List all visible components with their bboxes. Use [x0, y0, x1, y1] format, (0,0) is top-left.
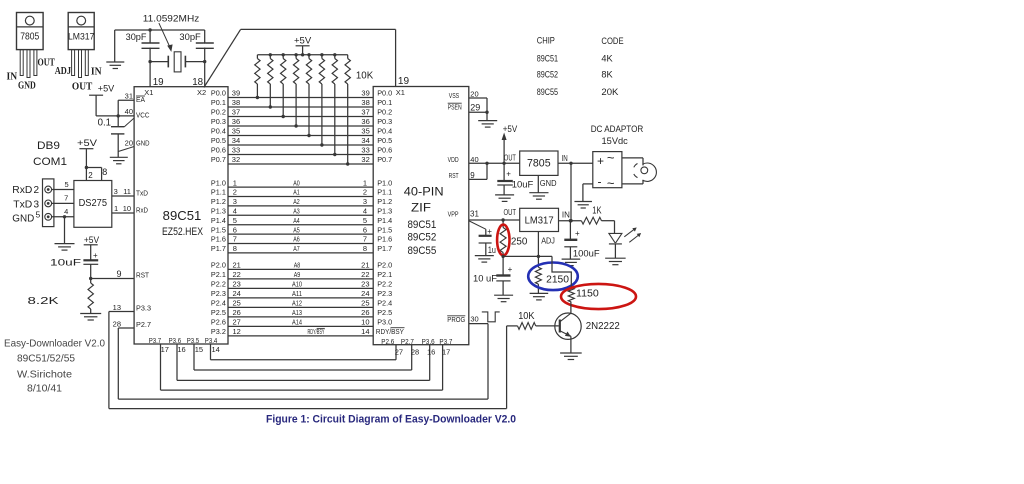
svg-text:P3.0: P3.0 — [377, 318, 392, 327]
wire LED drop — [614, 221, 616, 234]
label X1 inside ZIF — [396, 88, 405, 97]
wire RDY/BSY (P3.2 pin 12 to RDY/BSY pin 14) — [211, 327, 405, 336]
svg-text:P1.6: P1.6 — [211, 235, 226, 244]
svg-text:2150: 2150 — [546, 275, 569, 286]
wire EA pin 31 — [118, 100, 134, 116]
svg-text:10K: 10K — [356, 70, 374, 81]
svg-text:2: 2 — [34, 185, 40, 196]
label 89C51 (left chip) — [163, 208, 202, 223]
junction LM317 in — [569, 219, 572, 222]
svg-text:8: 8 — [363, 244, 367, 253]
svg-text:27: 27 — [233, 318, 241, 327]
wire LM317 ADJ — [537, 232, 539, 268]
svg-text:P3.7: P3.7 — [149, 336, 162, 345]
svg-text:34: 34 — [361, 136, 369, 145]
svg-text:P0.4: P0.4 — [211, 127, 226, 136]
svg-text:VSS: VSS — [449, 91, 460, 100]
svg-text:P2.0: P2.0 — [211, 261, 226, 270]
wire DB9 pin7 to DS275 — [52, 194, 74, 204]
svg-text:-: - — [598, 175, 602, 189]
svg-text:27: 27 — [395, 347, 403, 356]
wire P0.3 (pin 36 to pin 36) — [211, 117, 392, 126]
wire VPP pin 31 — [448, 209, 520, 220]
svg-text:PSEN: PSEN — [448, 102, 462, 111]
label pin 19 (ZIF X1) — [398, 76, 410, 87]
svg-text:10uF: 10uF — [50, 258, 81, 269]
svg-text:P0.7: P0.7 — [211, 155, 226, 164]
junction crystal right — [203, 60, 206, 63]
label 10uF (VDD) — [512, 180, 534, 191]
wire A3 (P1.3, pin 4) — [211, 207, 392, 216]
svg-text:CODE: CODE — [601, 36, 623, 47]
svg-text:RDY/BSY: RDY/BSY — [376, 327, 404, 336]
wire +5V pullup bus — [257, 54, 347, 56]
label OUT (7805 left) — [504, 154, 516, 163]
wire A0 (P1.0, pin 1) — [211, 178, 392, 187]
svg-text:89C51: 89C51 — [537, 53, 558, 64]
crystal Y1 11.0592MHz — [168, 52, 185, 72]
svg-text:37: 37 — [232, 108, 240, 117]
svg-text:11: 11 — [123, 187, 131, 196]
svg-text:P3.3: P3.3 — [136, 304, 151, 313]
resistor RN1-5 10K pull-up (P0.4) — [306, 55, 311, 137]
svg-text:38: 38 — [361, 98, 369, 107]
IC U3 40-PIN ZIF socket (body) — [373, 87, 469, 345]
svg-text:P0.3: P0.3 — [377, 117, 392, 126]
svg-text:P1.1: P1.1 — [377, 188, 392, 197]
svg-text:15Vdc: 15Vdc — [602, 136, 629, 147]
wire A6 (P1.6, pin 7) — [211, 235, 392, 244]
svg-text:35: 35 — [232, 127, 240, 136]
pin 15 P3.5 stub (left chip bottom) — [187, 336, 203, 370]
label 30pF right — [179, 32, 201, 43]
svg-text:8K: 8K — [601, 70, 613, 81]
svg-text:P2.4: P2.4 — [377, 299, 392, 308]
svg-text:A14: A14 — [292, 320, 302, 327]
svg-text:ADJ: ADJ — [541, 237, 555, 246]
label pin 2 (DS275) — [88, 171, 93, 180]
wire crystal left lead — [150, 61, 168, 63]
svg-text:P3.6: P3.6 — [422, 337, 435, 346]
wire P3.3 vertical — [108, 312, 110, 409]
svg-text:+5V: +5V — [77, 138, 98, 149]
svg-text:P2.0: P2.0 — [377, 261, 392, 270]
wire VDD pin 40 — [448, 155, 520, 164]
label IN (7805) — [7, 71, 18, 82]
svg-text:14: 14 — [212, 345, 220, 354]
label 250 — [511, 237, 528, 248]
svg-text:P1.3: P1.3 — [211, 207, 226, 216]
svg-text:IN: IN — [562, 154, 568, 163]
junction DB9 gnd — [63, 215, 66, 218]
wire 7805 GND stub — [537, 175, 539, 192]
ground (crystal caps) — [106, 62, 124, 69]
svg-text:7: 7 — [233, 235, 237, 244]
svg-text:2: 2 — [233, 188, 237, 197]
wire DS275 TxD to 89C51 — [112, 187, 149, 197]
svg-text:40: 40 — [125, 107, 133, 116]
svg-text:9: 9 — [470, 171, 475, 180]
label OUT (7805) — [38, 57, 56, 68]
svg-text:17: 17 — [161, 345, 169, 354]
svg-text:A13: A13 — [292, 310, 302, 317]
resistor RN1-4 10K pull-up (P0.3) — [293, 55, 298, 128]
resistor RN1-7 10K pull-up (P0.6) — [332, 55, 337, 156]
label IN (7805 box) — [562, 154, 568, 163]
svg-text:5: 5 — [65, 180, 69, 189]
wire P0.2 (pin 37 to pin 37) — [211, 108, 392, 117]
svg-text:17: 17 — [442, 347, 450, 356]
svg-text:22: 22 — [233, 270, 241, 279]
label 30pF left — [126, 32, 147, 43]
svg-text:P0.4: P0.4 — [377, 127, 392, 136]
regulator LM317 (box) — [520, 208, 559, 231]
svg-text:GND: GND — [540, 178, 557, 188]
svg-text:1: 1 — [363, 178, 367, 187]
svg-text:P2.3: P2.3 — [211, 289, 226, 298]
capacitor 10uF (VDD) — [497, 163, 513, 195]
wire A11 (P2.3 pin 24 to P2.3 pin 24) — [211, 289, 392, 298]
wire ADJ to 1150 jog — [552, 256, 571, 287]
svg-text:GND: GND — [12, 213, 34, 224]
svg-text:5: 5 — [233, 216, 237, 225]
wire gnd drop — [64, 217, 66, 244]
ground (DB9) — [55, 244, 75, 251]
svg-text:TxD: TxD — [13, 200, 32, 211]
svg-text:RxD: RxD — [136, 205, 148, 214]
svg-text:3: 3 — [233, 197, 237, 206]
wire P0.4 (pin 35 to pin 35) — [211, 127, 392, 136]
label 89C51 (ZIF) — [407, 219, 436, 231]
svg-text:4: 4 — [363, 207, 367, 216]
svg-text:DS275: DS275 — [79, 198, 108, 209]
resistor 10K (base) — [507, 323, 559, 330]
capacitor C2 30pF — [196, 43, 214, 48]
wire DB9 pin5 to DS275 — [52, 180, 74, 190]
svg-text:9: 9 — [116, 269, 121, 279]
label 40 VCC — [125, 107, 150, 119]
svg-text:IN: IN — [562, 211, 570, 220]
wire P3.7 to ZIF P3.7 — [161, 345, 443, 390]
junction RST node — [89, 277, 92, 280]
wire P0.7 (pin 32 to pin 32) — [211, 155, 392, 164]
wire oscillator top rail — [115, 29, 205, 31]
svg-text:7: 7 — [64, 194, 68, 203]
resistor 1K — [581, 217, 614, 224]
svg-text:13: 13 — [113, 303, 121, 312]
junction 15V rail — [569, 162, 572, 165]
svg-text:+: + — [597, 154, 604, 168]
svg-text:33: 33 — [232, 146, 240, 155]
svg-text:P2.2: P2.2 — [377, 280, 392, 289]
label IN (LM317 box) — [562, 211, 570, 220]
wire DB9 ground pin — [52, 207, 74, 217]
svg-text:GND: GND — [136, 139, 150, 148]
svg-text:OUT: OUT — [504, 208, 517, 217]
resistor RN1-6 10K pull-up (P0.5) — [319, 55, 324, 147]
svg-text:RxD: RxD — [12, 185, 32, 196]
resistor RN1-2 10K pull-up (P0.1) — [268, 55, 273, 109]
svg-text:10: 10 — [123, 204, 131, 213]
svg-text:20K: 20K — [601, 87, 619, 98]
svg-text:LM317: LM317 — [525, 216, 554, 227]
svg-text:1: 1 — [114, 204, 118, 213]
svg-text:VPP: VPP — [448, 209, 459, 218]
svg-text:39: 39 — [361, 89, 369, 98]
wire A14 (P2.6 pin 27 to P3.0 pin 10) — [211, 318, 392, 327]
svg-text:P1.5: P1.5 — [377, 225, 392, 234]
wire P2.7 bottom run — [118, 398, 488, 400]
svg-text:28: 28 — [411, 347, 419, 356]
svg-text:ADJ: ADJ — [55, 66, 71, 77]
svg-text:A9: A9 — [294, 272, 301, 279]
label X1 inside left chip — [144, 88, 153, 97]
label OUT (LM317) — [72, 82, 93, 93]
svg-text:VDD: VDD — [448, 155, 459, 164]
label TxD 3 — [13, 200, 39, 211]
svg-text:CHIP: CHIP — [537, 36, 555, 47]
svg-text:+5V: +5V — [294, 36, 312, 47]
label X2 inside left chip — [197, 88, 206, 97]
svg-text:8.2K: 8.2K — [28, 296, 59, 307]
table CHIP/CODE — [537, 36, 624, 98]
highlight red oval 1150 — [561, 284, 636, 309]
label 89C55 (ZIF) — [407, 245, 436, 257]
svg-text:89C52: 89C52 — [407, 232, 436, 244]
label ADJ (LM317 box) — [541, 237, 555, 246]
svg-text:+5V: +5V — [98, 84, 115, 95]
svg-text:8/10/41: 8/10/41 — [27, 383, 62, 395]
resistor RN1-8 10K pull-up (P0.7) — [345, 55, 350, 166]
label pin 18 (X2 left chip) — [192, 77, 203, 88]
svg-text:21: 21 — [361, 261, 369, 270]
wire P3.4 to ZIF P2.6 — [211, 345, 397, 360]
svg-text:VCC: VCC — [136, 110, 150, 119]
svg-text:W.Sirichote: W.Sirichote — [17, 369, 72, 381]
svg-text:A2: A2 — [293, 199, 300, 206]
resistor 1150 — [568, 288, 574, 303]
svg-text:P0.2: P0.2 — [377, 108, 392, 117]
svg-text:89C55: 89C55 — [537, 87, 558, 98]
wire 1150 to collector — [570, 302, 572, 313]
svg-text:P1.1: P1.1 — [211, 188, 226, 197]
wire ADJ node row — [503, 255, 552, 257]
label 0.1 — [98, 118, 112, 129]
wire P3.6 to ZIF P3.6 — [177, 345, 430, 381]
wire ZIF pin19 vertical — [395, 29, 397, 86]
pin 16 P3.6 stub (left chip bottom) — [169, 336, 186, 381]
wire adaptor minus — [583, 184, 593, 202]
junctions pullup bus — [269, 53, 337, 56]
svg-text:19: 19 — [398, 76, 410, 87]
label 15Vdc — [602, 136, 629, 147]
wire P3.3 pin 13 — [109, 303, 151, 313]
highlight blue oval 2150 — [528, 263, 578, 291]
wire 15V drop to LM317 — [570, 163, 572, 220]
svg-text:LM317: LM317 — [68, 32, 95, 43]
svg-text:~: ~ — [607, 176, 615, 191]
svg-text:A11: A11 — [292, 291, 302, 298]
label GND (7805 box) — [540, 178, 557, 188]
pin 14 P3.4 stub (left chip bottom) — [205, 336, 220, 360]
svg-text:34: 34 — [232, 136, 240, 145]
regulator package 7805 (TO-220) — [17, 13, 44, 78]
ground (8.2K) — [80, 314, 101, 321]
IC U2 89C51 master (body) — [134, 87, 228, 344]
svg-text:22: 22 — [361, 270, 369, 279]
svg-text:37: 37 — [361, 108, 369, 117]
svg-text:2N2222: 2N2222 — [586, 321, 621, 332]
label 1u — [488, 245, 496, 256]
svg-text:EZ52.HEX: EZ52.HEX — [162, 226, 204, 238]
svg-text:8: 8 — [102, 167, 107, 177]
annotation arrow to crystal — [159, 23, 173, 52]
wire A5 (P1.5, pin 6) — [211, 225, 392, 234]
svg-text:30pF: 30pF — [126, 32, 147, 43]
svg-text:89C51: 89C51 — [163, 208, 202, 223]
label 10uF (RST) — [50, 258, 81, 269]
junction 100uF — [569, 219, 572, 222]
junction VDD/+5V — [502, 162, 505, 165]
svg-text:35: 35 — [361, 127, 369, 136]
junction PSEN — [485, 111, 488, 114]
svg-text:1K: 1K — [592, 206, 602, 217]
wire X2 to ZIF X1 diagonal — [204, 29, 241, 87]
svg-text:10K: 10K — [518, 311, 535, 322]
svg-text:+: + — [487, 227, 492, 236]
wire P3.3 bottom run — [109, 408, 507, 410]
svg-text:5: 5 — [36, 210, 41, 220]
ground (1uF) — [475, 256, 494, 263]
+5V supply (VCC) — [89, 84, 115, 116]
svg-text:31: 31 — [470, 210, 479, 219]
svg-text:32: 32 — [361, 155, 369, 164]
svg-text:P2.6: P2.6 — [211, 318, 226, 327]
svg-text:31: 31 — [125, 92, 133, 101]
svg-text:29: 29 — [470, 102, 480, 112]
svg-text:2: 2 — [88, 171, 93, 180]
svg-text:4: 4 — [233, 207, 237, 216]
label 2N2222 — [586, 321, 621, 332]
svg-text:38: 38 — [232, 98, 240, 107]
svg-text:40-PIN: 40-PIN — [404, 184, 444, 198]
svg-text:P2.7: P2.7 — [401, 337, 414, 346]
svg-text:P1.0: P1.0 — [211, 178, 226, 187]
wire P3.5 to ZIF P2.7 — [194, 345, 412, 370]
svg-text:20: 20 — [125, 138, 133, 147]
label ZIF — [411, 201, 431, 215]
junction crystal left — [148, 60, 151, 63]
svg-text:32: 32 — [232, 155, 240, 164]
svg-text:4: 4 — [64, 207, 68, 216]
capacitor C1 30pF — [142, 43, 160, 48]
junction X1 top — [148, 28, 151, 31]
svg-text:10uF: 10uF — [512, 180, 534, 191]
svg-text:6: 6 — [233, 225, 237, 234]
wire P0.6 (pin 33 to pin 33) — [211, 146, 392, 155]
svg-text:A3: A3 — [293, 209, 300, 216]
capacitor 0.1uF decoupling — [111, 116, 134, 157]
svg-text:P0.7: P0.7 — [377, 155, 392, 164]
label 1K — [592, 206, 602, 217]
junction DS275 vcc — [85, 166, 88, 169]
svg-text:12: 12 — [233, 327, 241, 336]
svg-text:GND: GND — [18, 81, 36, 92]
wire P2.7 vertical — [117, 328, 119, 399]
svg-text:P2.5: P2.5 — [211, 308, 226, 317]
wire A10 (P2.2 pin 23 to P2.2 pin 23) — [211, 280, 392, 289]
svg-text:7805: 7805 — [527, 158, 551, 170]
wire A2 (P1.2, pin 3) — [211, 197, 392, 206]
svg-text:A1: A1 — [293, 190, 300, 197]
svg-text:A5: A5 — [293, 227, 300, 234]
svg-text:36: 36 — [232, 117, 240, 126]
junction VCC/EA — [117, 114, 120, 117]
svg-text:2: 2 — [363, 188, 367, 197]
resistor RN1-1 10K pull-up (P0.0) — [255, 55, 260, 99]
wire P0.5 (pin 34 to pin 34) — [211, 136, 392, 145]
title block text — [4, 338, 105, 395]
pin 17 P3.7 stub (left chip bottom) — [149, 336, 169, 390]
svg-text:40: 40 — [470, 155, 478, 164]
label 10K (base) — [518, 311, 535, 322]
svg-text:25: 25 — [233, 299, 241, 308]
svg-text:0.1: 0.1 — [98, 118, 112, 129]
wire 10K feed vertical — [506, 326, 508, 409]
wire VSS/PSEN gnd drop — [486, 98, 488, 121]
svg-text:DC ADAPTOR: DC ADAPTOR — [591, 124, 644, 134]
wire A8 (P2.0 pin 21 to P2.0 pin 21) — [211, 261, 392, 270]
svg-text:23: 23 — [361, 280, 369, 289]
svg-text:A8: A8 — [294, 263, 301, 270]
wire 7805 IN — [558, 162, 593, 164]
svg-text:5: 5 — [363, 216, 367, 225]
connector DB9 COM1 — [43, 179, 54, 227]
svg-text:30: 30 — [470, 314, 478, 323]
svg-text:ZIF: ZIF — [411, 201, 431, 215]
wire RST pin 9 — [91, 269, 150, 280]
svg-text:3: 3 — [114, 187, 118, 196]
ground (adaptor) — [574, 202, 592, 209]
svg-text:P3.2: P3.2 — [211, 327, 226, 336]
svg-text:IN: IN — [91, 67, 102, 78]
svg-text:89C52: 89C52 — [537, 70, 558, 81]
svg-text:21: 21 — [233, 261, 241, 270]
svg-text:A0: A0 — [293, 180, 300, 187]
svg-text:24: 24 — [361, 289, 369, 298]
figure caption — [266, 414, 516, 426]
svg-text:1u: 1u — [488, 245, 496, 256]
svg-text:P3.6: P3.6 — [169, 336, 182, 345]
svg-text:P0.0: P0.0 — [211, 89, 226, 98]
svg-text:+: + — [575, 229, 580, 238]
power jack — [634, 163, 657, 181]
ground (10uF VDD) — [495, 195, 514, 202]
svg-text:26: 26 — [233, 308, 241, 317]
wire VPP to 1uF diagonal — [469, 221, 486, 236]
svg-text:P3.5: P3.5 — [187, 336, 200, 345]
wire PSEN pin 29 — [448, 102, 487, 112]
svg-text:4K: 4K — [601, 53, 613, 64]
svg-text:+5V: +5V — [503, 124, 518, 135]
pins P2.6/P2.7/P3.6/P3.7 bottom of ZIF — [381, 337, 452, 357]
svg-text:P0.1: P0.1 — [377, 98, 392, 107]
ground (100uF) — [562, 259, 581, 266]
svg-text:RST: RST — [136, 271, 149, 280]
label 31 EA — [125, 92, 145, 104]
svg-text:P1.2: P1.2 — [377, 197, 392, 206]
label 89C52 (ZIF) — [407, 232, 436, 244]
